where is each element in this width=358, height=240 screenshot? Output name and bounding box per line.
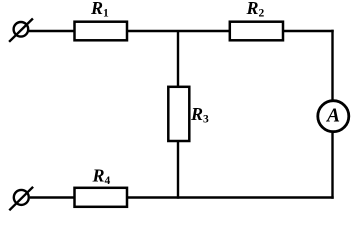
wire (top-left terminal to R1) xyxy=(29,30,76,32)
wire (top-right corner down to ammeter) xyxy=(331,30,333,100)
resistor R4 xyxy=(75,188,128,207)
wire (R4 to bottom-right corner) xyxy=(127,196,334,198)
ammeter A xyxy=(318,101,349,132)
terminal J1 (top-left crossed circle) xyxy=(9,19,33,42)
svg-text:A: A xyxy=(325,105,340,126)
wire (bottom-left terminal to R4) xyxy=(30,196,76,198)
node (top junction) / wire (node down to R3) xyxy=(177,31,179,88)
wire (R1 to R2 through node) xyxy=(127,30,231,32)
wire (R2 to top-right corner) xyxy=(283,30,334,32)
resistor R3 xyxy=(168,87,189,141)
resistor R1 xyxy=(75,22,128,41)
wire (ammeter to bottom-right corner) xyxy=(331,133,333,199)
resistor R2 xyxy=(230,22,283,41)
terminal J2 (bottom-left crossed circle) xyxy=(9,187,33,211)
wire (R3 down to bottom wire) xyxy=(177,141,179,199)
